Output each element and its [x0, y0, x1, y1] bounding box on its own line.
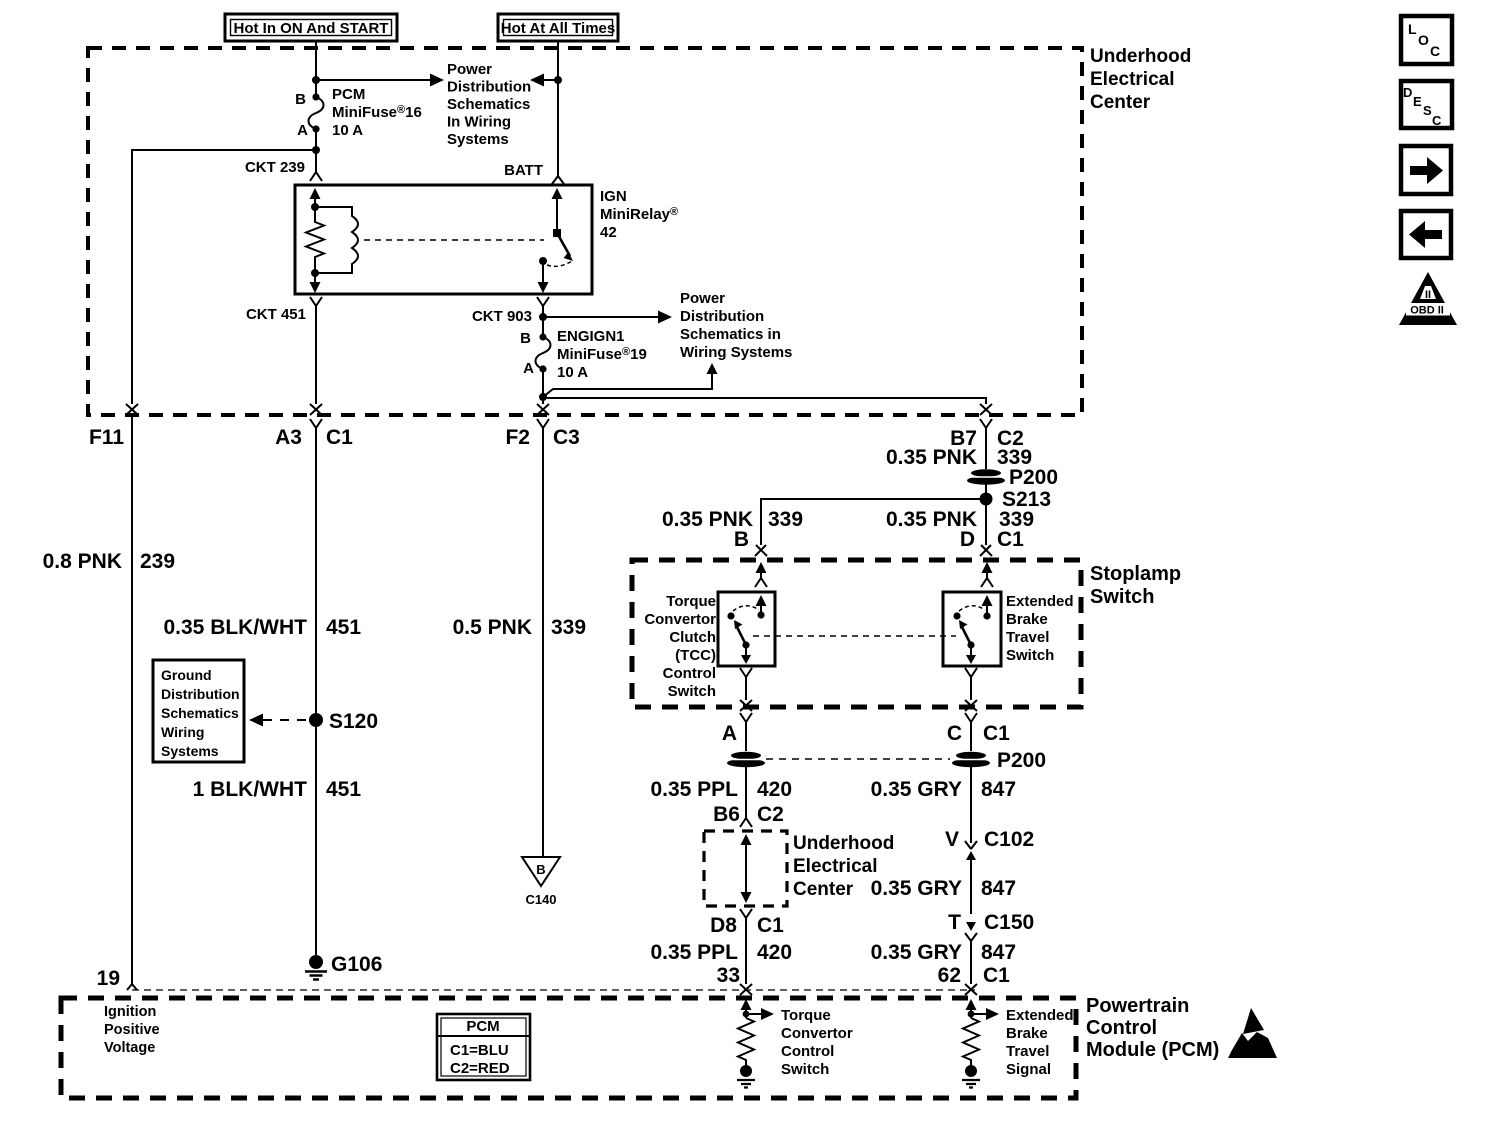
svg-text:Wiring: Wiring [161, 724, 204, 740]
svg-text:A: A [523, 360, 534, 377]
svg-text:Power: Power [680, 290, 725, 307]
wire A to small UEC box [745, 767, 747, 818]
icon DESC button [1401, 81, 1452, 128]
crossing X at F11 [126, 404, 138, 415]
PCM signal arrow right (torque) [743, 1008, 774, 1020]
svg-text:F11: F11 [89, 426, 124, 449]
svg-text:D: D [960, 528, 975, 551]
relay label [600, 188, 678, 241]
svg-text:O: O [1418, 32, 1429, 48]
svg-text:Distribution: Distribution [680, 308, 764, 325]
ground symbol (torque) [737, 1080, 755, 1088]
svg-text:C102: C102 [984, 828, 1034, 851]
fork entering relay BATT [552, 176, 564, 184]
svg-text:0.35 PPL: 0.35 PPL [650, 778, 738, 801]
svg-text:Underhood: Underhood [793, 833, 894, 854]
svg-text:0.35 BLK/WHT: 0.35 BLK/WHT [163, 616, 307, 639]
node PCM ground dot (torque) [740, 1065, 752, 1077]
crossing X at C2/B7 [980, 404, 992, 415]
fork below stoplamp box (A) [740, 713, 752, 751]
TCC switch entry arrow [755, 562, 767, 587]
svg-text:Schematics in: Schematics in [680, 326, 781, 343]
svg-text:ENGIGN1: ENGIGN1 [557, 328, 625, 345]
svg-text:C1: C1 [983, 722, 1010, 745]
svg-text:B6: B6 [713, 803, 740, 826]
svg-text:Positive: Positive [104, 1022, 160, 1038]
node splice S120 [309, 713, 323, 727]
svg-text:0.8 PNK: 0.8 PNK [43, 550, 122, 573]
fuse PCM MiniFuse 16 10A [295, 86, 422, 139]
relay coil-switch link dashed [364, 239, 544, 241]
wire fuse to relay, branch left [315, 129, 317, 172]
svg-text:Hot At All Times: Hot At All Times [501, 20, 615, 37]
fuse ENGIGN1 MiniFuse 19 10A [520, 328, 647, 381]
svg-text:19: 19 [97, 967, 120, 990]
svg-text:Control: Control [663, 665, 716, 682]
svg-text:A3: A3 [275, 426, 302, 449]
svg-text:Clutch: Clutch [669, 629, 716, 646]
node relay switch pivot [553, 229, 561, 237]
svg-text:339: 339 [768, 508, 803, 531]
svg-text:A: A [722, 722, 737, 745]
svg-text:Extended: Extended [1006, 1007, 1074, 1024]
relay switch exit arrow [538, 261, 549, 293]
svg-text:PCM: PCM [332, 86, 365, 103]
wire P200 to S213 [985, 484, 987, 545]
svg-text:1 BLK/WHT: 1 BLK/WHT [193, 778, 307, 801]
wire arrow to Power Distribution Schematics (mid) [543, 311, 672, 324]
svg-text:Voltage: Voltage [104, 1040, 155, 1056]
node Extended blade junction [967, 641, 974, 648]
relay switch motion dashed arc [547, 261, 572, 266]
node relay throw contact [539, 257, 547, 265]
node coil bottom junction [311, 269, 319, 277]
svg-text:Ground: Ground [161, 667, 212, 683]
relay coil leg entry arrow [310, 188, 321, 207]
fork below A3 [310, 419, 322, 428]
svg-text:Power: Power [447, 61, 492, 78]
node CKT 903 branch junction [539, 313, 547, 321]
svg-text:P200: P200 [1009, 466, 1058, 489]
svg-text:B: B [295, 91, 306, 108]
relay coil leg exit arrow [310, 273, 321, 293]
svg-text:451: 451 [326, 616, 361, 639]
svg-text:C1: C1 [997, 528, 1024, 551]
svg-text:B: B [536, 862, 545, 877]
Underhood Electrical Center dashed box [88, 48, 1082, 415]
svg-text:C1: C1 [757, 914, 784, 937]
wire 0.8 PNK end fork [127, 984, 137, 990]
svg-text:Distribution: Distribution [447, 79, 531, 96]
wire to left margin [132, 150, 316, 404]
svg-text:Extended: Extended [1006, 593, 1074, 610]
svg-text:T: T [948, 911, 961, 934]
TCC blade [734, 620, 746, 645]
wire branch with up arrow to note [543, 363, 718, 397]
label Torque Convertor Control Switch (PCM) [781, 1007, 853, 1078]
label Extended Brake Travel Switch [1006, 593, 1074, 664]
svg-text:Switch: Switch [668, 683, 716, 700]
crossing X at 33 [740, 984, 752, 995]
TCC switch inner entry arrow [756, 595, 767, 615]
svg-text:10 A: 10 A [332, 122, 363, 139]
svg-text:Center: Center [793, 879, 854, 900]
svg-text:Wiring Systems: Wiring Systems [680, 344, 792, 361]
PCM connector color note box [437, 1014, 530, 1080]
connector P200 inline (C) [952, 749, 1046, 772]
Extended motion dashed arc [959, 606, 985, 611]
svg-text:Torque: Torque [666, 593, 716, 610]
svg-text:Switch: Switch [1006, 647, 1054, 664]
svg-text:Electrical: Electrical [793, 856, 878, 877]
relay switch contact entry arrow [552, 188, 563, 233]
svg-text:239: 239 [140, 550, 175, 573]
crossing X at F2 [537, 404, 549, 415]
fork above stoplamp box (B) [755, 545, 767, 556]
Stoplamp Switch dashed box [632, 560, 1081, 707]
svg-text:G106: G106 [331, 953, 382, 976]
svg-text:339: 339 [551, 616, 586, 639]
fork above small UEC box [740, 818, 752, 827]
wire arrow to Power Distribution Schematics (left) [316, 74, 444, 87]
leader arrow from S120 to ground note box [249, 714, 308, 727]
fork entering relay [310, 172, 322, 181]
power feed label "Hot In ON And START" [225, 14, 397, 41]
svg-text:Distribution: Distribution [161, 686, 240, 702]
svg-text:PCM: PCM [466, 1018, 499, 1035]
wire A3 column [315, 428, 317, 958]
Extended blade [959, 620, 971, 645]
svg-text:C140: C140 [525, 892, 556, 907]
svg-text:V: V [945, 828, 959, 851]
svg-text:MiniFuse®19: MiniFuse®19 [557, 346, 647, 363]
svg-text:Hot In ON And START: Hot In ON And START [234, 20, 389, 37]
svg-text:C3: C3 [553, 426, 580, 449]
svg-text:847: 847 [981, 941, 1016, 964]
node junction at PCM fuse feed [312, 76, 320, 84]
svg-text:Electrical: Electrical [1090, 69, 1175, 90]
svg-text:Signal: Signal [1006, 1061, 1051, 1078]
svg-text:C1=BLU: C1=BLU [450, 1042, 509, 1059]
node junction CKT 239 branch [312, 146, 320, 154]
node TCC blade junction [742, 641, 749, 648]
svg-text:A: A [297, 122, 308, 139]
svg-text:BATT: BATT [504, 162, 543, 179]
title Powertrain Control Module (PCM) [1086, 995, 1219, 1061]
resistor torque convertor control switch [738, 1018, 754, 1066]
node coil top junction [311, 203, 319, 211]
svg-text:CKT 903: CKT 903 [472, 308, 532, 325]
wire C to C102 [970, 767, 972, 843]
switch TCC control switch box [718, 592, 775, 666]
svg-text:C2: C2 [757, 803, 784, 826]
svg-text:0.5 PNK: 0.5 PNK [453, 616, 532, 639]
svg-text:C1: C1 [326, 426, 353, 449]
Extended exit arrow [966, 645, 976, 664]
resistor extended brake travel signal [963, 1018, 979, 1066]
ground symbol (extended) [962, 1080, 980, 1088]
Extended switch entry arrow [981, 562, 993, 587]
svg-text:0.35 PNK: 0.35 PNK [886, 446, 977, 469]
svg-text:Stoplamp: Stoplamp [1090, 563, 1181, 585]
crossing X at 62 [965, 984, 977, 995]
svg-text:847: 847 [981, 778, 1016, 801]
switch Extended brake travel switch box [943, 592, 1001, 666]
P200 link dashed line [766, 758, 950, 760]
svg-text:Center: Center [1090, 92, 1151, 113]
connector C102 crossing [965, 841, 977, 914]
svg-text:42: 42 [600, 224, 617, 241]
fork below TCC box [740, 668, 752, 700]
PCM inner thin dashed boundary [132, 989, 975, 991]
svg-text:420: 420 [757, 941, 792, 964]
svg-text:CKT 451: CKT 451 [246, 306, 306, 323]
svg-text:C1: C1 [983, 964, 1010, 987]
title Underhood Electrical Center [1090, 46, 1191, 113]
node PCM ground dot (extended) [965, 1065, 977, 1077]
small Underhood Electrical Center dashed box [704, 831, 787, 906]
node splice S213 [980, 493, 993, 506]
svg-text:Ignition: Ignition [104, 1004, 156, 1020]
node TCC contact [727, 612, 734, 619]
svg-text:Schematics: Schematics [161, 705, 239, 721]
icon LOC button [1401, 16, 1452, 64]
svg-text:0.35 GRY: 0.35 GRY [871, 778, 962, 801]
svg-text:MiniRelay®: MiniRelay® [600, 206, 678, 223]
svg-text:C: C [947, 722, 962, 745]
Powertrain Control Module dashed box [61, 998, 1076, 1098]
svg-text:L: L [1408, 21, 1417, 37]
power feed label "Hot At All Times" [498, 14, 618, 41]
svg-text:Brake: Brake [1006, 1025, 1048, 1042]
label Torque Convertor Clutch (TCC) Control Switch [644, 593, 716, 700]
fork below F2 [537, 419, 549, 428]
svg-text:Control: Control [1086, 1017, 1157, 1039]
label Extended Brake Travel Signal (PCM) [1006, 1007, 1074, 1078]
ESD sensitivity symbol [1228, 1008, 1277, 1058]
relay resistor (parallel) [306, 207, 324, 273]
node junction on BATT wire [554, 76, 562, 84]
small UEC exit arrow [741, 892, 752, 903]
svg-text:S120: S120 [329, 710, 378, 733]
crossing X at A3 [310, 404, 322, 415]
svg-text:C: C [1430, 43, 1440, 59]
wire branch to B7 C2 [543, 398, 986, 404]
svg-text:S: S [1423, 103, 1432, 118]
fork below B7 [980, 419, 992, 428]
node Extended contact [953, 612, 960, 619]
wire 0.8 PNK down left [131, 415, 133, 984]
title Stoplamp Switch [1090, 563, 1181, 608]
svg-text:C150: C150 [984, 911, 1034, 934]
svg-text:Switch: Switch [1090, 586, 1154, 608]
fork below small UEC box [740, 909, 752, 984]
svg-text:0.35 PPL: 0.35 PPL [650, 941, 738, 964]
svg-text:F2: F2 [505, 426, 530, 449]
icon OBD II triangle [1399, 272, 1457, 325]
svg-text:Control: Control [781, 1043, 834, 1060]
svg-text:Schematics: Schematics [447, 96, 530, 113]
svg-text:0.35 GRY: 0.35 GRY [871, 941, 962, 964]
label Underhood Electrical Center (small) [793, 833, 894, 900]
node TCC pivot [757, 611, 764, 618]
svg-text:0.35 GRY: 0.35 GRY [871, 877, 962, 900]
icon forward arrow button [1401, 146, 1451, 194]
svg-text:IGN: IGN [600, 188, 627, 205]
svg-text:Underhood: Underhood [1090, 46, 1191, 67]
relay coil winding [315, 207, 358, 273]
wire from Hot At All Times to relay BATT [557, 41, 559, 176]
fork below relay CKT 903 leg [537, 297, 549, 337]
fork above stoplamp box (D) [980, 545, 992, 556]
node fuse output junction [539, 393, 547, 401]
connector P200 inline (A) [727, 752, 765, 768]
PCM signal arrow right (extended) [968, 1008, 999, 1020]
fork below relay CKT 451 leg [310, 297, 322, 404]
wire from Hot In ON And START to PCM fuse [315, 41, 317, 97]
crossing X leaving stoplamp box (C) [965, 700, 977, 711]
svg-text:II: II [1425, 289, 1431, 301]
note box Ground Distribution Schematics Wiring Systems [153, 660, 244, 762]
svg-text:Systems: Systems [447, 131, 509, 148]
svg-text:Torque: Torque [781, 1007, 831, 1024]
ground G106 [305, 953, 382, 980]
svg-text:Convertor: Convertor [644, 611, 716, 628]
svg-text:B: B [520, 330, 531, 347]
fork below stoplamp box (C) [965, 713, 977, 751]
svg-text:E: E [1413, 94, 1422, 109]
node Extended pivot [983, 612, 990, 619]
PCM input arrow (33) [741, 999, 752, 1018]
svg-text:OBD II: OBD II [1410, 305, 1444, 317]
note Power Distribution Schematics in Wiring Systems (mid) [680, 290, 792, 361]
wire F2 column [542, 428, 544, 857]
wire B7 column [985, 428, 987, 469]
svg-text:10 A: 10 A [557, 364, 588, 381]
svg-text:B: B [734, 528, 749, 551]
svg-text:62: 62 [938, 964, 961, 987]
connector C140 triangle [522, 857, 560, 907]
svg-text:Switch: Switch [781, 1061, 829, 1078]
wire below fuse to junction [542, 369, 544, 404]
note Power Distribution Schematics In Wiring Systems (top) [447, 61, 531, 148]
connector C150 crossing [965, 922, 977, 984]
switch link dashed line [753, 635, 956, 637]
TCC motion dashed arc [733, 606, 759, 611]
svg-text:33: 33 [717, 964, 740, 987]
svg-text:D: D [1403, 85, 1412, 100]
svg-text:MiniFuse®16: MiniFuse®16 [332, 104, 422, 121]
svg-text:847: 847 [981, 877, 1016, 900]
svg-text:Powertrain: Powertrain [1086, 995, 1189, 1017]
svg-text:Convertor: Convertor [781, 1025, 853, 1042]
svg-text:P200: P200 [997, 749, 1046, 772]
svg-text:451: 451 [326, 778, 361, 801]
svg-text:Travel: Travel [1006, 629, 1049, 646]
small UEC entry arrow [741, 834, 752, 893]
relay IGN MiniRelay 42 box [295, 185, 592, 294]
wire arrow (left) from BATT feed [530, 74, 558, 87]
svg-text:CKT 239: CKT 239 [245, 159, 305, 176]
svg-text:420: 420 [757, 778, 792, 801]
connector P200 inline (B7) [967, 466, 1058, 489]
svg-text:Module (PCM): Module (PCM) [1086, 1039, 1219, 1061]
svg-text:Travel: Travel [1006, 1043, 1049, 1060]
svg-text:C: C [1432, 113, 1442, 128]
wire branch S213 to B [761, 499, 986, 545]
crossing X leaving stoplamp box (A) [740, 700, 752, 711]
svg-text:In Wiring: In Wiring [447, 114, 511, 131]
svg-text:D8: D8 [710, 914, 737, 937]
PCM input arrow (62) [966, 999, 977, 1018]
svg-text:C2=RED: C2=RED [450, 1060, 510, 1077]
fork below Extended box [965, 668, 977, 700]
TCC exit arrow [741, 645, 751, 664]
label Ignition Positive Voltage [104, 1004, 160, 1056]
svg-text:Brake: Brake [1006, 611, 1048, 628]
relay switch blade [557, 233, 573, 261]
icon back arrow button [1401, 211, 1451, 258]
Extended switch inner entry arrow [982, 595, 993, 616]
svg-text:(TCC): (TCC) [675, 647, 716, 664]
svg-text:Systems: Systems [161, 743, 219, 759]
